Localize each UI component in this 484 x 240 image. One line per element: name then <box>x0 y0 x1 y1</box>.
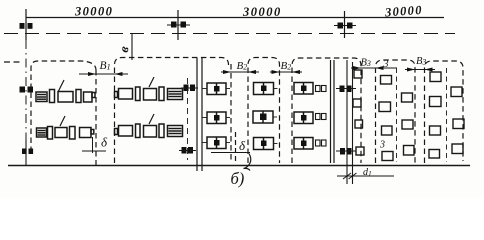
svg-text:30000: 30000 <box>74 5 113 19</box>
machine 2 column A <box>203 83 231 149</box>
column symbol A-top <box>20 23 33 29</box>
bay 1 right edge dashed <box>95 70 97 165</box>
dimension d1 <box>337 173 394 179</box>
column symbol C (x=344 on dimension line) <box>334 11 356 38</box>
dimension delta (bay2) <box>211 132 250 161</box>
svg-text:б): б) <box>231 169 245 188</box>
wall 1 axis dashed <box>187 78 189 160</box>
svg-text:3: 3 <box>379 140 385 151</box>
svg-text:δ: δ <box>101 135 108 150</box>
column symbol A-bottom <box>22 149 33 155</box>
dimension B2 (second) <box>270 70 302 74</box>
bay 6 outline <box>425 61 464 163</box>
label 1 leader (bay2 row2) <box>149 114 154 124</box>
machine 3 wall column squares <box>353 70 364 155</box>
svg-text:В3: В3 <box>361 58 371 69</box>
svg-text:В2: В2 <box>237 60 248 72</box>
machine 2 column B <box>253 83 278 150</box>
dimension B1 <box>79 72 128 76</box>
svg-text:30000: 30000 <box>242 5 282 19</box>
machine train 1 row 2 bay 2 <box>115 124 183 138</box>
label 1 leader (bay2 row1) <box>149 77 154 87</box>
bay 1 outline (dashed, rounded) <box>31 61 96 152</box>
machine 3 column E squares <box>451 87 464 154</box>
machine 3 column C squares <box>402 93 415 155</box>
dash line (wall axis) y=33.5 <box>4 33 455 35</box>
label v (rotated) with leader tick <box>131 34 133 60</box>
machine train 1 row 2 bay 1 <box>37 127 94 140</box>
dimension line top <box>26 17 444 19</box>
svg-text:3: 3 <box>383 59 389 70</box>
label 1 leader (bay1 row2) <box>60 116 65 126</box>
bay 2 outline <box>115 58 229 164</box>
bottom building wall line <box>8 165 470 167</box>
wall 2 line b <box>333 60 335 163</box>
svg-text:δ: δ <box>239 138 246 153</box>
dimension B3 (second) <box>405 68 435 72</box>
label 1 leader (bay1 row1) <box>58 80 64 92</box>
wall 2 second line (extends below for d1) <box>352 62 354 184</box>
bay 4 outline <box>292 58 361 163</box>
bay 3 outline <box>248 58 280 164</box>
bay 6 internal divider dashed <box>446 68 448 162</box>
bay 5 internal divider dashed <box>396 68 398 162</box>
small attachments right of column C <box>316 86 327 147</box>
svg-text:30000: 30000 <box>384 3 424 20</box>
wall 2 column symbols <box>340 86 352 93</box>
machine 3 column B squares <box>379 76 393 161</box>
svg-text:В3: В3 <box>416 56 426 67</box>
dimension B2 (first) <box>221 70 259 74</box>
left stub of zone line <box>4 61 22 63</box>
wall 1 line b <box>201 58 203 171</box>
wall 1 axis column symbols <box>184 85 196 92</box>
column symbol A-mid <box>20 87 34 93</box>
machine 2 column C <box>294 83 313 150</box>
svg-text:В1: В1 <box>100 60 111 72</box>
wall 2 line a <box>330 60 332 163</box>
machine train 1 row 1 bay 2 <box>115 87 183 101</box>
wall 2 ticks <box>336 88 356 90</box>
column symbol B (x=178 on dimension line) <box>167 10 190 40</box>
dimension delta (bay1) <box>82 137 106 153</box>
svg-text:В2: В2 <box>281 60 292 72</box>
machine train 1 row 1 bay 1 <box>36 90 95 103</box>
wall 1 ticks <box>181 87 198 89</box>
wall 1 line a <box>196 58 198 171</box>
bay 5 outline <box>376 60 416 163</box>
svg-text:d1: d1 <box>363 167 372 178</box>
leader curl for figure label <box>244 154 251 171</box>
column axis A (left) <box>25 9 27 40</box>
dimension B3 (first) <box>351 66 397 70</box>
wall 2 axis (extends below for d1) <box>346 60 348 184</box>
bay 2 right edge dashed <box>230 64 232 163</box>
machine 3 column D squares <box>429 72 441 158</box>
